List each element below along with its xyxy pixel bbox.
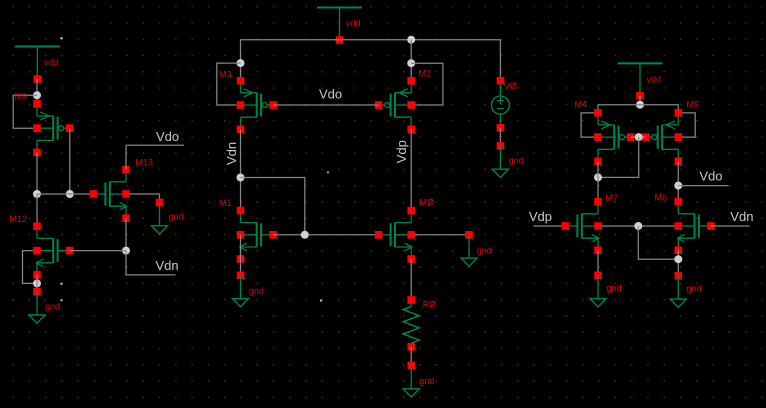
transistor M7 (NMOS, mirrored) <box>562 198 602 254</box>
svg-text:Vdn: Vdn <box>224 142 239 165</box>
wire M0 bulk to gnd <box>415 234 470 236</box>
ground symbol (M1 source) <box>233 272 264 307</box>
node M9 source/bulk tap <box>33 91 41 99</box>
svg-text:gnd: gnd <box>607 283 622 293</box>
wire rail to M3 source <box>240 40 242 81</box>
svg-text:gnd: gnd <box>687 284 702 294</box>
wire net Vdn stub (left) <box>126 251 176 275</box>
svg-text:gnd: gnd <box>509 156 524 166</box>
wire vdd to M9 source <box>36 79 38 104</box>
svg-text:gnd: gnd <box>477 245 492 255</box>
ground symbol (M6 source) <box>670 272 701 307</box>
svg-text:RØ: RØ <box>423 300 437 310</box>
transistor M0 (NMOS, mirrored) <box>375 207 415 263</box>
wire rail to M2 source <box>410 40 412 81</box>
wire net Vdo stub (right) <box>678 185 728 187</box>
wire net Vdo stub (left) <box>126 144 184 146</box>
transistor M6 (NMOS) <box>675 198 715 254</box>
wire M9 gate down <box>69 128 71 194</box>
node rail junction at M2/V0 branch <box>407 36 415 44</box>
svg-text:M5: M5 <box>687 100 700 110</box>
node M9 drain junction <box>33 190 41 198</box>
node gate link junction <box>635 133 643 141</box>
svg-text:gnd: gnd <box>249 286 264 296</box>
svg-text:M7: M7 <box>606 193 619 203</box>
svg-text:M2: M2 <box>419 69 432 79</box>
svg-text:VØ: VØ <box>504 81 517 91</box>
wire M5 drain to Vdo node <box>677 161 679 202</box>
power symbol vdd (left) <box>15 47 60 83</box>
transistor M1 (NMOS) <box>237 207 277 263</box>
svg-text:Vdn: Vdn <box>730 209 753 224</box>
wire M1 bulk tied to source <box>240 235 242 259</box>
transistor M9 (PMOS diode) <box>33 100 73 156</box>
node Vdo junction (right) <box>674 182 682 190</box>
transistor M13 (NMOS) <box>90 166 130 222</box>
svg-text:M9: M9 <box>15 92 28 102</box>
wire M13 source to M12 gate <box>70 250 126 252</box>
transistor M2 (PMOS, mirrored) <box>375 77 415 133</box>
transistor M5 (PMOS, mirrored) <box>642 109 682 165</box>
wire Vdn branch to gate bus <box>241 178 305 235</box>
svg-text:M1: M1 <box>219 198 232 208</box>
wire M13 drain up to Vdo stub <box>125 145 127 170</box>
svg-text:gnd: gnd <box>45 302 60 312</box>
node Vdn branch junction <box>237 174 245 182</box>
svg-text:vdd: vdd <box>44 58 59 68</box>
wire vdd to rail <box>639 96 641 105</box>
svg-text:gnd: gnd <box>419 376 434 386</box>
wire M4 bulk loop <box>581 113 598 137</box>
svg-text:Vdp: Vdp <box>529 209 552 224</box>
wire net Vdn stub <box>711 225 750 227</box>
wire R0 to gnd <box>410 347 412 366</box>
node M13 source junction <box>122 247 130 255</box>
node M9 gate junction <box>66 190 74 198</box>
wire M12 source to gnd <box>36 275 38 292</box>
wire net Vdn vertical M3 drain to M1 drain <box>240 129 242 210</box>
transistor M3 (PMOS) <box>237 77 277 133</box>
wire net Vdp stub <box>533 225 562 227</box>
wire vdd rail (right) <box>598 105 678 113</box>
wire V0 minus to gnd <box>499 128 501 146</box>
svg-text:MØ: MØ <box>420 198 435 208</box>
transistor M12 (NMOS) <box>33 223 73 279</box>
transistor M4 (PMOS diode) <box>594 109 634 165</box>
wire rail to V0 plus <box>499 40 501 81</box>
wire M9 bulk loop <box>13 95 37 128</box>
wire bulk bus down to M6 source <box>638 226 678 259</box>
svg-text:M13: M13 <box>136 158 154 168</box>
wire M7 source to gnd <box>597 250 599 275</box>
svg-text:M4: M4 <box>575 100 588 110</box>
wire M13 source down <box>125 218 127 250</box>
wire M5 bulk loop <box>678 113 695 137</box>
wire net Vdo gate link M3-M2 <box>273 104 378 106</box>
node gate bus junction <box>301 231 309 239</box>
svg-text:M3: M3 <box>219 70 232 80</box>
svg-text:vdd: vdd <box>647 74 662 84</box>
ground symbol (M0 bulk) <box>461 231 492 266</box>
node M12 source/bulk junction <box>33 279 41 287</box>
wire M13 bulk to gnd <box>130 194 160 203</box>
svg-text:M6: M6 <box>655 193 668 203</box>
svg-text:Vdp: Vdp <box>394 140 409 163</box>
ground symbol (M13 bulk) <box>152 199 184 234</box>
node M6 source junction <box>674 255 682 263</box>
power symbol vdd (right) <box>618 63 663 99</box>
power symbol vdd (middle) <box>317 8 362 44</box>
wire gate link down to M4 drain <box>598 137 639 177</box>
bright grid dots <box>60 37 329 302</box>
svg-text:Vdo: Vdo <box>699 169 722 184</box>
svg-text:Vdn: Vdn <box>156 258 179 273</box>
wire gate link M4-M5 <box>631 136 646 138</box>
svg-text:Vdo: Vdo <box>319 87 342 102</box>
wire vdd rail (middle) <box>241 39 501 41</box>
wire M2 bulk loop <box>411 63 443 105</box>
wire M6 source to gnd <box>677 250 679 275</box>
ground symbol (R0) <box>403 362 434 397</box>
wire node to M12 drain <box>36 194 38 226</box>
wire M3 bulk loop <box>217 63 241 105</box>
node vdd rail junction <box>636 101 644 109</box>
svg-text:gnd: gnd <box>169 212 184 222</box>
ground symbol (M7 source) <box>590 272 622 307</box>
wire M9 drain down <box>36 152 38 194</box>
svg-text:vdd: vdd <box>346 19 361 29</box>
ground symbol (V0) <box>492 142 523 177</box>
wire M1 source to gnd <box>240 259 242 275</box>
svg-text:Vdo: Vdo <box>156 129 179 144</box>
node M3 source/bulk tap <box>237 59 245 67</box>
node M4 drain junction <box>594 173 602 181</box>
wire gate bus M1 to M0 <box>273 234 378 236</box>
svg-text:M12: M12 <box>10 214 28 224</box>
node M2 source/bulk tap <box>407 59 415 67</box>
wire mirror node to M13 gate <box>37 193 93 195</box>
wire M4 drain to M7 drain <box>597 161 599 202</box>
wire net Vdp vertical M2 drain to M0 drain <box>410 129 412 210</box>
wire M7 bulk to M6 bulk <box>602 225 675 227</box>
voltage source V0 (vdc) <box>491 77 509 132</box>
wire M0 source to R0 <box>410 259 412 300</box>
wire M12 bulk loop <box>23 251 38 284</box>
node bulk bus junction <box>634 222 642 230</box>
ground symbol (M12 source) <box>29 288 60 323</box>
resistor R0 <box>403 296 419 350</box>
